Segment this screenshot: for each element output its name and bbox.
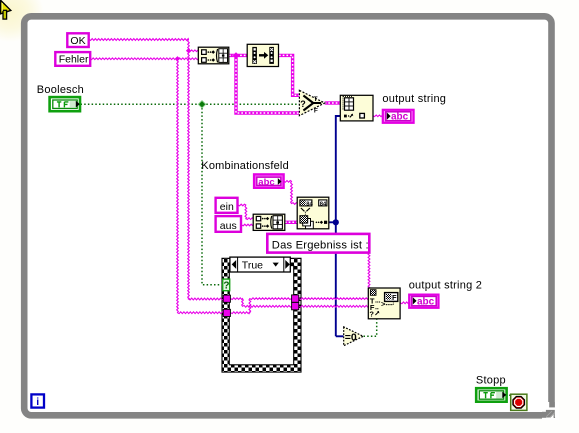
svg-text:Das Ergebniss ist :: Das Ergebniss ist : (272, 239, 369, 251)
svg-text:Fehler: Fehler (59, 54, 89, 66)
wire lower-right tunnel to false input of U7 (299, 305, 369, 307)
function Select U3 (299, 90, 324, 115)
case selector terminal (223, 279, 230, 292)
function Select-and-Append String U7 (368, 288, 400, 319)
function Build Array U1 (198, 47, 229, 64)
string constant ein (216, 198, 238, 213)
junction blue dot (333, 219, 339, 225)
wire boolean: equals-zero result to selector input (364, 319, 377, 336)
function Index Array U4 (340, 95, 373, 121)
string constant Das Ergebniss ist (267, 234, 369, 253)
svg-text:i: i (36, 396, 39, 408)
svg-text:T: T (314, 96, 318, 103)
wire OK right, down to case upper-left tunnel (89, 39, 224, 300)
svg-text:84: 84 (320, 201, 327, 207)
tunnel upper-right (292, 295, 299, 302)
svg-text:=0: =0 (345, 332, 357, 344)
wire OK branch into Build Array input 1 (189, 50, 199, 52)
string indicator terminal output string 2 (409, 295, 438, 308)
function Search 1D Array U6 (297, 197, 329, 229)
wire string-array group (229, 55, 341, 222)
string constant Fehler (55, 52, 90, 66)
svg-text:Kombinationsfeld: Kombinationsfeld (201, 160, 289, 172)
frame resize grip bottom-right (542, 402, 559, 420)
wire case inside lower-left to upper-right (231, 298, 292, 314)
tunnel lower-left (223, 309, 230, 316)
wire Das Ergebniss ist to string input of U7 (368, 253, 370, 289)
junction boolean diamond (198, 101, 205, 108)
function Build Array U5 (253, 214, 285, 230)
svg-text:F: F (314, 107, 318, 114)
wire Fehler branch down to case lower-left tunnel (177, 59, 224, 314)
svg-text:84: 84 (306, 201, 313, 207)
wire boolean: Boolesch to Select s input (81, 103, 300, 105)
svg-text:ein: ein (220, 201, 234, 213)
svg-text:F: F (392, 293, 397, 302)
wire integer: Search index out, up to Index Array, down to equals-zero (329, 116, 344, 336)
junction array wire diamond (233, 52, 239, 58)
wire Index Array element to output string (373, 115, 383, 117)
wire case inside upper-left to lower-right (231, 298, 292, 307)
string constant OK (67, 33, 88, 47)
svg-text:abc: abc (417, 297, 435, 308)
svg-text:output string 2: output string 2 (409, 279, 482, 291)
svg-text:abc: abc (258, 177, 274, 188)
boolean control terminal Stopp TF (476, 388, 506, 402)
svg-text:Stopp: Stopp (476, 374, 506, 386)
svg-text:True: True (242, 259, 263, 271)
svg-text:abc: abc (391, 112, 409, 123)
mouse cursor (1, 0, 11, 19)
junction string wire dot at Fehler branch (175, 56, 180, 61)
string indicator terminal output string (383, 110, 414, 123)
tunnel lower-right (292, 302, 299, 309)
wire Fehler to Build Array input 2 (90, 58, 199, 60)
case structure frame (checkered border) (222, 258, 301, 372)
svg-text:output string: output string (382, 93, 446, 105)
wire boolean branch down to case selector (202, 104, 223, 284)
svg-text:Boolesch: Boolesch (37, 84, 84, 96)
wire Kombinationsfeld to Search 1D Array (284, 181, 298, 205)
boolean control terminal Boolesch TF (50, 97, 80, 111)
string control terminal Kombinationsfeld (254, 174, 284, 188)
wire ein to Build Array 2 input 1 (238, 204, 253, 219)
function Equal-to-0 U8 (344, 327, 364, 346)
tunnel upper-left (223, 295, 230, 302)
case selector label True (230, 257, 290, 272)
string constant aus (216, 216, 241, 232)
wire aus to Build Array 2 input 2 (242, 224, 254, 226)
info icon (31, 394, 44, 408)
wire boolean: Stopp TF to stop button (506, 394, 511, 396)
cursor glow (0, 0, 44, 42)
boolean constant stop button (511, 394, 527, 410)
junction string wire dot at OK branch (186, 48, 191, 53)
wire U7 output to output string 2 (400, 302, 409, 304)
svg-text:aus: aus (220, 220, 237, 232)
wire upper-right tunnel to true input of U7 (299, 298, 369, 300)
svg-text:OK: OK (70, 35, 85, 47)
svg-text:?: ? (223, 281, 229, 292)
function Reverse 1D Array U2 (247, 44, 278, 66)
svg-text:?: ? (300, 99, 306, 109)
svg-text:?: ? (369, 310, 374, 319)
